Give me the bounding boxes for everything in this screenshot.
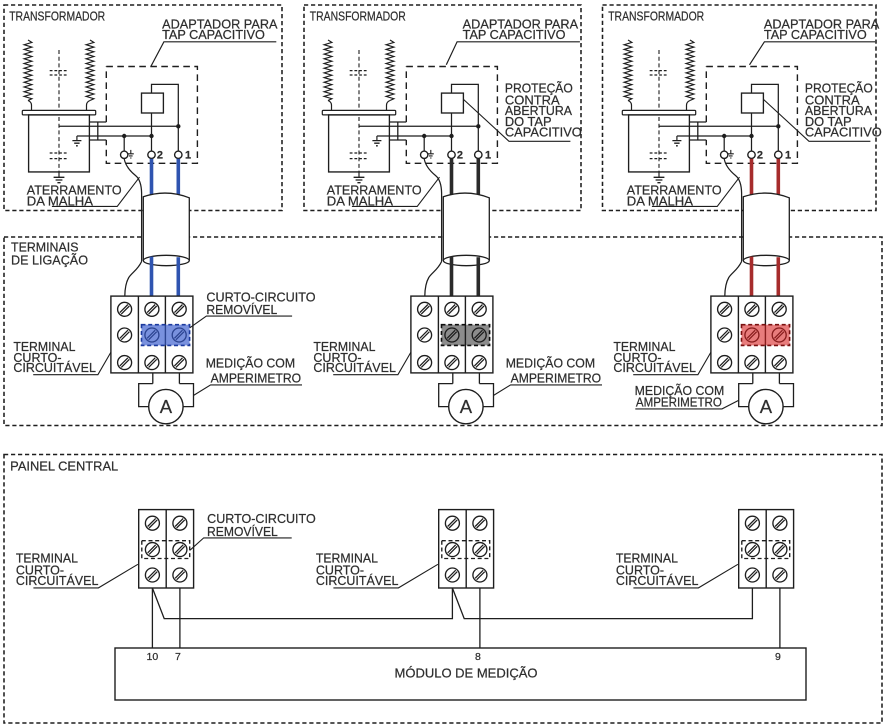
leader: terminal pointer (panel group 3) xyxy=(633,564,738,588)
transformer T1 HV bushing left (coil) xyxy=(24,40,32,101)
wire: bus X4 to X5 (diagonal + horizontal) xyxy=(152,588,452,619)
wire: tap lead (node to terminal 1 row) xyxy=(359,125,478,127)
screw terminal X1 r1c1 xyxy=(118,302,132,316)
label TERMINAIS DE LIGACAO xyxy=(11,239,88,267)
screw terminal X1 r1c3 xyxy=(172,302,186,316)
screw terminal X1 r2c3 xyxy=(172,328,186,342)
screw terminal X2 r3c3 xyxy=(472,356,486,370)
svg-text:CIRCUITÁVEL: CIRCUITÁVEL xyxy=(616,573,699,588)
label ADAPTADOR PARA TAP CAPACITIVO (group 3) xyxy=(764,17,880,42)
screw terminal X6 r3c1 xyxy=(745,568,759,582)
screw terminal X2 r3c1 xyxy=(418,356,432,370)
wire: phase conductor terminal 1 to sheath (colored) xyxy=(476,159,480,198)
wire: phase conductor terminal 2 to sheath (colored) xyxy=(750,159,754,197)
wire: ammeter loop xyxy=(439,384,494,407)
short-circuit link dashed border xyxy=(142,325,190,346)
label ADAPTADOR PARA TAP CAPACITIVO (group 1) xyxy=(162,17,278,42)
transformer section box 3 (dashed) xyxy=(603,5,877,211)
tank-wall feed-through xyxy=(89,122,106,140)
wire: device bottom to terminal 2 xyxy=(151,113,153,151)
leader: curto-circuito underline+pointer (panel) xyxy=(190,538,292,550)
label PROTECAO CONTRA ABERTURA DO TAP CAPACITIVO (group 3) xyxy=(805,82,882,140)
wire: phase conductor terminal 1 to sheath (colored) xyxy=(177,159,181,198)
svg-text:TAP CAPACITIVO: TAP CAPACITIVO xyxy=(463,28,566,42)
screw terminal X6 r3c2 xyxy=(773,568,787,582)
label TERMINAL CURTO-CIRCUITAVEL (panel group 2) xyxy=(316,552,399,589)
screw terminal X4 r1c1 xyxy=(145,516,159,530)
wire: device bottom to terminal 2 xyxy=(451,113,453,151)
cable sheath W2 xyxy=(443,193,489,262)
svg-text:8: 8 xyxy=(475,651,481,663)
leader: terminal pointer (mid group 3) xyxy=(633,352,711,374)
earth glyph at earth terminal xyxy=(730,150,732,154)
screw terminal X4 r3c2 xyxy=(173,568,187,582)
ground: tap reference earth inside adapter xyxy=(76,136,78,141)
junction on earth lead (terminal) xyxy=(422,134,426,138)
label MEDICAO COM AMPERIMETRO (group 3) xyxy=(635,384,725,410)
screw terminal X2 r1c1 xyxy=(418,302,432,316)
transformer T3 HV bushing left (coil) xyxy=(624,40,632,101)
wire: block X1 to ammeter stubs xyxy=(153,373,180,384)
screw terminal X1 r1c2 xyxy=(145,302,159,316)
wire: bus X5 to X6 (diagonal + horizontal) xyxy=(452,588,752,619)
screw terminal X5 r1c1 xyxy=(445,516,459,530)
short-circuit link overlay (colored) on X2 xyxy=(442,325,490,346)
wire: X5 col2 to module pin 8 xyxy=(479,588,481,648)
wire: ammeter loop xyxy=(139,384,194,407)
wire: earth conductor sheath to block col1 (thin) xyxy=(725,262,742,297)
screw terminal X4 r1c2 xyxy=(173,516,187,530)
label MEDICAO COM AMPERIMETRO (group 1) xyxy=(206,356,302,385)
wire: block X3 to ammeter stubs xyxy=(753,373,780,384)
leader: medicao underline+pointer (group 2) xyxy=(494,385,602,396)
screw terminal X6 r1c1 xyxy=(745,516,759,530)
protection device U3 (square) xyxy=(742,93,764,113)
terminal 2 stud xyxy=(748,151,755,158)
screw terminal X2 r2c2 xyxy=(445,328,459,342)
leader: protecao pointer+underline (group 2) xyxy=(464,100,571,142)
screw terminal X6 r2c2 xyxy=(773,543,787,557)
transformer T3 internal capacitive divider axis (dashed) xyxy=(658,50,660,172)
transformer T3 lid xyxy=(622,110,695,115)
capacitive tap mark lower (dashed) xyxy=(50,153,68,159)
screw terminal X4 r2c1 xyxy=(145,543,159,557)
screw terminal X2 r2c3 xyxy=(472,328,486,342)
terminal: earth stud xyxy=(721,151,728,158)
screw terminal X1 r3c3 xyxy=(172,356,186,370)
screw terminal X5 r3c2 xyxy=(473,568,487,582)
short-circuit link overlay (colored) on X1 xyxy=(142,325,190,346)
label ATERRAMENTO DA MALHA xyxy=(327,184,422,209)
junction on tap lead xyxy=(776,124,780,128)
terminal 1 stud xyxy=(775,151,782,158)
screw terminal X1 r2c1 xyxy=(118,328,132,342)
wire: phase conductor sheath to block col3 (colored) xyxy=(177,257,181,296)
svg-text:CURTO-CIRCUITO: CURTO-CIRCUITO xyxy=(207,512,316,526)
svg-text:A: A xyxy=(760,396,773,417)
label ADAPTADOR PARA TAP CAPACITIVO (group 2) xyxy=(463,17,579,42)
leader: adaptador underline+pointer (group 3) xyxy=(750,42,876,65)
screw terminal X2 r3c2 xyxy=(445,356,459,370)
capacitive tap mark upper (dashed) xyxy=(650,71,668,75)
screw terminal X3 r2c1 xyxy=(718,328,732,342)
wire: phase conductor terminal 2 to sheath (colored) xyxy=(150,159,154,197)
capacitive tap mark upper (dashed) xyxy=(50,71,68,75)
capacitive tap mark lower (dashed) xyxy=(650,153,668,159)
svg-text:DE LIGAÇÃO: DE LIGAÇÃO xyxy=(11,253,88,268)
screw terminal X3 r3c3 xyxy=(772,356,786,370)
leader: protecao pointer+underline (group 3) xyxy=(764,100,871,142)
svg-text:MEDIÇÃO COM: MEDIÇÃO COM xyxy=(206,356,295,370)
wire: earth conductor to sheath (thin) xyxy=(124,159,141,262)
wire: earth conductor to sheath (thin) xyxy=(424,159,441,262)
wire: bushing left lead xyxy=(328,101,332,111)
wire: bushing right lead xyxy=(387,101,391,111)
leader: terminal pointer (mid group 1) xyxy=(33,352,111,374)
transformer T1 HV bushing right (coil) xyxy=(86,40,94,101)
screw terminal X5 r2c1 xyxy=(445,543,459,557)
screw terminal X3 r2c3 xyxy=(772,328,786,342)
screw terminal X3 r1c3 xyxy=(772,302,786,316)
wire: earth conductor to sheath (thin) xyxy=(724,159,741,262)
transformer section box 1 (dashed) xyxy=(4,5,282,211)
screw terminal X3 r1c2 xyxy=(745,302,759,316)
wire: earth node to earth terminal xyxy=(423,136,425,151)
label ATERRAMENTO DA MALHA xyxy=(27,184,122,209)
wire: bushing left lead xyxy=(628,101,632,111)
wire: device top loop to terminal 1 xyxy=(452,84,479,150)
transformer T1 internal capacitive divider axis (dashed) xyxy=(58,50,60,172)
svg-text:AMPERIMETRO: AMPERIMETRO xyxy=(636,396,722,410)
svg-text:1: 1 xyxy=(185,150,191,162)
wire: phase conductor sheath to block col2 (colored) xyxy=(450,257,454,297)
svg-text:2: 2 xyxy=(157,150,163,162)
screw terminal X2 r2c1 xyxy=(418,328,432,342)
terminal block X1 body xyxy=(111,296,193,373)
svg-text:1: 1 xyxy=(485,150,491,162)
screw terminal X5 r2c2 xyxy=(473,543,487,557)
panel terminal block X5 body xyxy=(439,510,494,588)
short-circuit link overlay (colored) on X3 xyxy=(742,325,790,346)
screw terminal X3 r3c2 xyxy=(745,356,759,370)
wire: earth node to earth terminal xyxy=(723,136,725,151)
svg-text:2: 2 xyxy=(457,150,463,162)
wire: earth lead (node to terminal 2 row) xyxy=(677,135,752,137)
svg-text:AMPERIMETRO: AMPERIMETRO xyxy=(211,372,302,386)
label CURTO-CIRCUITO REMOVIVEL (mid) xyxy=(206,290,315,317)
wire: phase conductor sheath to block col3 (colored) xyxy=(776,257,780,296)
svg-text:CIRCUITÁVEL: CIRCUITÁVEL xyxy=(13,360,96,375)
wire: phase conductor terminal 2 to sheath (colored) xyxy=(450,159,454,197)
svg-text:A: A xyxy=(160,396,173,417)
screw terminal X3 r1c1 xyxy=(718,302,732,316)
cable sheath W3 xyxy=(743,193,789,262)
wire: phase conductor terminal 1 to sheath (colored) xyxy=(776,159,780,198)
svg-text:CAPACITIVO: CAPACITIVO xyxy=(505,126,582,140)
leader: adaptador underline+pointer (group 2) xyxy=(446,42,580,65)
junction on earth lead (device) xyxy=(149,134,153,138)
screw terminal X3 r3c1 xyxy=(718,356,732,370)
svg-text:AMPERIMETRO: AMPERIMETRO xyxy=(511,372,602,386)
svg-text:A: A xyxy=(460,396,473,417)
screw terminal X5 r3c1 xyxy=(445,568,459,582)
terminals section box (dashed) TERMINAIS DE LIGACAO xyxy=(4,237,882,426)
svg-text:CIRCUITÁVEL: CIRCUITÁVEL xyxy=(16,573,99,588)
svg-text:1: 1 xyxy=(785,150,791,162)
ground: tap reference earth inside adapter xyxy=(676,136,678,141)
wire: earth lead (node to terminal 2 row) xyxy=(77,135,152,137)
label ATERRAMENTO DA MALHA xyxy=(627,184,722,209)
leader: adaptador underline+pointer (group 1) xyxy=(151,42,276,67)
wire: earth lead (node to terminal 2 row) xyxy=(377,135,452,137)
svg-text:CIRCUITÁVEL: CIRCUITÁVEL xyxy=(613,360,696,375)
transformer T3 tank xyxy=(629,115,690,172)
panel terminal block X4 body xyxy=(139,510,194,588)
wire: device top loop to terminal 1 xyxy=(152,84,179,150)
terminal block X3 body xyxy=(711,296,793,373)
svg-text:CAPACITIVO: CAPACITIVO xyxy=(805,126,882,140)
transformer T1 tank xyxy=(29,115,90,172)
wire: bushing left lead xyxy=(28,101,32,111)
wire: tap lead (node to terminal 1 row) xyxy=(59,125,178,127)
tank-wall feed-through xyxy=(389,122,406,140)
earth glyph at earth terminal xyxy=(130,150,132,154)
junction on earth lead (terminal) xyxy=(722,134,726,138)
wire: X4 col2 to module pin 7 xyxy=(179,588,181,648)
svg-text:PAINEL CENTRAL: PAINEL CENTRAL xyxy=(10,459,118,473)
terminal: earth stud xyxy=(421,151,428,158)
screw terminal X2 r1c2 xyxy=(445,302,459,316)
svg-text:REMOVÍVEL: REMOVÍVEL xyxy=(207,524,278,539)
leader: curto-circuito underline+pointer (mid) xyxy=(190,316,292,328)
transformer T1 lid xyxy=(22,110,95,115)
svg-text:7: 7 xyxy=(175,651,181,663)
screw terminal X6 r1c2 xyxy=(773,516,787,530)
junction on earth lead (terminal) xyxy=(122,134,126,138)
removable link outline (dashed) on X4 xyxy=(142,541,190,559)
panel terminal block X6 body xyxy=(739,510,794,588)
screw terminal X2 r1c3 xyxy=(472,302,486,316)
junction on tap lead xyxy=(176,124,180,128)
leader: medicao underline+pointer (group 1) xyxy=(194,385,302,396)
svg-text:10: 10 xyxy=(147,651,159,663)
adapter box A1 (dashed) ADAPTADOR PARA TAP CAPACITIVO xyxy=(106,67,197,164)
transformer T2 internal capacitive divider axis (dashed) xyxy=(358,50,360,172)
short-circuit link dashed border xyxy=(742,325,790,346)
leader: terminal pointer (mid group 2) xyxy=(333,352,411,374)
screw terminal X4 r2c2 xyxy=(173,543,187,557)
transformer T3 HV bushing right (coil) xyxy=(686,40,694,101)
wire: bushing right lead xyxy=(87,101,91,111)
svg-text:MÓDULO DE MEDIÇÃO: MÓDULO DE MEDIÇÃO xyxy=(395,666,538,681)
wire: device top loop to terminal 1 xyxy=(752,84,779,150)
terminal 1 stud xyxy=(175,151,182,158)
transformer T2 HV bushing left (coil) xyxy=(324,40,332,101)
ground: transformer tank earth xyxy=(658,172,660,177)
capacitive tap mark upper (dashed) xyxy=(350,71,368,75)
wire: earth conductor sheath to block col1 (thin) xyxy=(125,262,142,297)
svg-text:CIRCUITÁVEL: CIRCUITÁVEL xyxy=(316,573,399,588)
transformer T2 lid xyxy=(322,110,395,115)
screw terminal X6 r2c1 xyxy=(745,543,759,557)
adapter box A2 (dashed) ADAPTADOR PARA TAP CAPACITIVO xyxy=(406,67,497,164)
leader: aterramento underline+pointer xyxy=(352,177,440,206)
screw terminal X1 r3c2 xyxy=(145,356,159,370)
wire: phase conductor sheath to block col2 (colored) xyxy=(150,257,154,297)
leader: aterramento underline+pointer xyxy=(652,177,740,206)
wire: earth conductor sheath to block col1 (thin) xyxy=(425,262,442,297)
ammeter P1 xyxy=(149,389,183,423)
removable link outline (dashed) on X5 xyxy=(442,541,490,559)
label TERMINAL CURTO-CIRCUITAVEL (panel group 3) xyxy=(616,552,699,589)
protection device U1 (square) xyxy=(142,93,164,113)
leader: aterramento underline+pointer xyxy=(52,177,140,206)
svg-text:TAP CAPACITIVO: TAP CAPACITIVO xyxy=(162,28,265,42)
cable sheath W1 xyxy=(143,193,189,262)
label TERMINAL CURTO-CIRCUITAVEL (mid group 2) xyxy=(313,340,396,375)
wire: X4 col1 to module pin 10 xyxy=(151,588,153,648)
label TERMINAL CURTO-CIRCUITAVEL (mid group 1) xyxy=(13,340,96,375)
svg-text:TRANSFORMADOR: TRANSFORMADOR xyxy=(310,10,406,24)
screw terminal X4 r3c1 xyxy=(145,568,159,582)
wire: block X2 to ammeter stubs xyxy=(453,373,480,384)
screw terminal X3 r2c2 xyxy=(745,328,759,342)
terminal 2 stud xyxy=(448,151,455,158)
junction on tap lead xyxy=(476,124,480,128)
label TERMINAL CURTO-CIRCUITAVEL (panel group 1) xyxy=(16,552,99,589)
wire: ammeter loop xyxy=(739,384,794,407)
ground: transformer tank earth xyxy=(58,172,60,177)
label CURTO-CIRCUITO REMOVIVEL (panel) xyxy=(207,512,316,539)
svg-text:TAP CAPACITIVO: TAP CAPACITIVO xyxy=(764,28,867,42)
protection device U2 (square) xyxy=(442,93,464,113)
label TERMINAL CURTO-CIRCUITAVEL (mid group 3) xyxy=(613,340,696,375)
screw terminal X1 r3c1 xyxy=(118,356,132,370)
ammeter P3 xyxy=(749,389,783,423)
wire: tap lead (node to terminal 1 row) xyxy=(659,125,778,127)
ammeter P2 xyxy=(449,389,483,423)
transformer T2 tank xyxy=(329,115,390,172)
terminal block X2 body xyxy=(411,296,493,373)
wire: phase conductor sheath to block col3 (colored) xyxy=(476,257,480,296)
svg-text:TRANSFORMADOR: TRANSFORMADOR xyxy=(9,10,105,24)
leader: terminal pointer (panel group 1) xyxy=(33,564,137,588)
svg-text:CIRCUITÁVEL: CIRCUITÁVEL xyxy=(313,360,396,375)
svg-text:REMOVÍVEL: REMOVÍVEL xyxy=(206,302,277,317)
leader: medicao underline+pointer (group 3) xyxy=(635,400,739,409)
svg-text:2: 2 xyxy=(757,150,763,162)
screw terminal X1 r2c2 xyxy=(145,328,159,342)
junction on earth lead (device) xyxy=(749,134,753,138)
wire: phase conductor sheath to block col2 (colored) xyxy=(750,257,754,297)
adapter box A3 (dashed) ADAPTADOR PARA TAP CAPACITIVO xyxy=(706,67,797,164)
svg-text:9: 9 xyxy=(775,651,781,663)
wire: bushing right lead xyxy=(687,101,691,111)
measurement module MODULO DE MEDICAO xyxy=(115,648,806,700)
wire: earth node to earth terminal xyxy=(123,136,125,151)
ground: transformer tank earth xyxy=(358,172,360,177)
earth glyph at earth terminal xyxy=(430,150,432,154)
short-circuit link dashed border xyxy=(442,325,490,346)
transformer section box 2 (dashed) xyxy=(304,5,581,211)
terminal: earth stud xyxy=(121,151,128,158)
removable link outline (dashed) on X6 xyxy=(742,541,790,559)
svg-text:MEDIÇÃO COM: MEDIÇÃO COM xyxy=(506,356,595,370)
terminal 1 stud xyxy=(475,151,482,158)
capacitive tap mark lower (dashed) xyxy=(350,153,368,159)
ground: tap reference earth inside adapter xyxy=(376,136,378,141)
transformer T2 HV bushing right (coil) xyxy=(386,40,394,101)
wire: device bottom to terminal 2 xyxy=(751,113,753,151)
leader: terminal pointer (panel group 2) xyxy=(333,564,438,588)
tank-wall feed-through xyxy=(689,122,706,140)
label PROTECAO CONTRA ABERTURA DO TAP CAPACITIVO (group 2) xyxy=(505,82,582,140)
central panel section box (dashed) PAINEL CENTRAL xyxy=(4,455,882,724)
junction on earth lead (device) xyxy=(449,134,453,138)
label MEDICAO COM AMPERIMETRO (group 2) xyxy=(506,356,602,385)
terminal 2 stud xyxy=(148,151,155,158)
screw terminal X5 r1c2 xyxy=(473,516,487,530)
wire: X6 col2 to module pin 9 xyxy=(779,588,781,648)
svg-text:TRANSFORMADOR: TRANSFORMADOR xyxy=(608,10,704,24)
